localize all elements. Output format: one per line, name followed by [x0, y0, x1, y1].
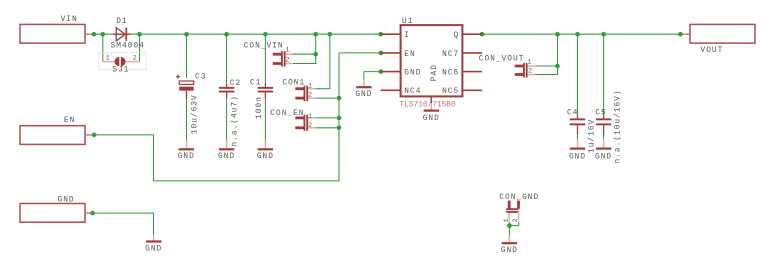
svg-text:NC4: NC4: [404, 88, 421, 96]
svg-text:C3: C3: [195, 73, 206, 81]
svg-text:2: 2: [528, 68, 532, 76]
svg-text:n.a.(4u7): n.a.(4u7): [231, 95, 239, 146]
svg-text:NC5: NC5: [442, 88, 459, 96]
svg-text:I: I: [404, 32, 410, 40]
svg-text:CON_GND: CON_GND: [499, 194, 539, 202]
svg-text:10u/63V: 10u/63V: [191, 94, 199, 134]
svg-text:1: 1: [285, 47, 289, 55]
svg-text:NC6: NC6: [442, 70, 459, 78]
svg-text:Q: Q: [453, 32, 459, 40]
svg-text:2: 2: [133, 54, 137, 62]
svg-text:2: 2: [308, 92, 312, 100]
svg-text:1: 1: [308, 83, 312, 91]
svg-text:C4: C4: [567, 110, 578, 118]
svg-text:VOUT: VOUT: [701, 47, 724, 55]
svg-text:EN: EN: [404, 51, 415, 59]
svg-text:GND: GND: [355, 91, 372, 99]
svg-text:n.a.(10u/16V): n.a.(10u/16V): [614, 89, 622, 163]
svg-text:1: 1: [308, 113, 312, 121]
svg-text:GND: GND: [404, 70, 421, 78]
svg-text:CON_VOUT: CON_VOUT: [479, 55, 525, 63]
svg-text:CON_EN: CON_EN: [270, 110, 304, 118]
svg-text:U1: U1: [402, 18, 413, 26]
svg-text:1: 1: [503, 218, 511, 222]
svg-text:CON1: CON1: [282, 79, 305, 87]
svg-text:2: 2: [285, 56, 289, 64]
svg-text:GND: GND: [178, 153, 195, 161]
svg-text:GND: GND: [423, 115, 440, 123]
svg-text:1: 1: [106, 54, 110, 62]
svg-text:D1: D1: [116, 18, 127, 26]
svg-text:PAD: PAD: [431, 64, 439, 81]
svg-text:1u/16V: 1u/16V: [588, 119, 596, 153]
svg-text:C5: C5: [595, 110, 606, 118]
svg-text:VIN: VIN: [61, 16, 78, 24]
svg-text:1: 1: [528, 59, 532, 67]
svg-text:GND: GND: [501, 247, 518, 255]
svg-text:NC7: NC7: [442, 51, 459, 59]
svg-text:SM4004: SM4004: [111, 42, 145, 50]
svg-text:GND: GND: [595, 153, 612, 161]
svg-text:CON_VIN: CON_VIN: [244, 43, 284, 51]
svg-text:EN: EN: [64, 117, 75, 125]
svg-text:2: 2: [308, 122, 312, 130]
svg-text:C1: C1: [250, 79, 261, 87]
svg-text:C2: C2: [230, 80, 241, 88]
svg-text:GND: GND: [257, 153, 274, 161]
svg-text:SJ1: SJ1: [112, 67, 129, 75]
svg-text:GND: GND: [145, 246, 162, 254]
svg-text:TLS710/715B0: TLS710/715B0: [400, 101, 456, 109]
svg-text:GND: GND: [58, 196, 75, 204]
svg-text:GND: GND: [218, 153, 235, 161]
svg-text:2: 2: [512, 218, 520, 222]
svg-text:GND: GND: [569, 153, 586, 161]
svg-text:100n: 100n: [256, 96, 264, 119]
